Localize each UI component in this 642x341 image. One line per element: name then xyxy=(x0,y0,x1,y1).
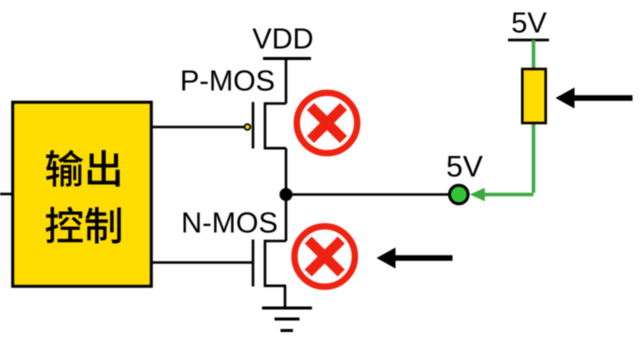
svg-text:VDD: VDD xyxy=(252,24,313,56)
wire: P-MOS drain to output node xyxy=(285,148,288,194)
power rail 5V bar xyxy=(508,39,549,42)
svg-text:5V: 5V xyxy=(446,151,483,184)
control block U1 (output control box) xyxy=(13,102,152,286)
node: output junction dot xyxy=(280,188,293,201)
wire: green vertical from 5V bar to resistor xyxy=(532,40,536,69)
label 输出 (line 1 of control box) xyxy=(46,150,120,187)
crossed-out symbol at N-MOS xyxy=(295,226,355,286)
power rail VDD bar xyxy=(263,57,311,60)
transistor Q2 N-MOS xyxy=(253,240,286,287)
resistor R1 (pull-up) xyxy=(522,69,545,123)
wire: VDD to P-MOS source xyxy=(285,59,288,104)
svg-text:N-MOS: N-MOS xyxy=(181,208,278,240)
arrow pointing at resistor xyxy=(556,88,633,109)
wire: output node to 5V clamp node xyxy=(286,193,449,196)
wire: green horizontal from resistor branch xyxy=(484,193,533,197)
wire: green vertical below resistor xyxy=(532,123,536,193)
arrow pointing at N-MOS cross xyxy=(377,248,453,269)
ground xyxy=(262,308,312,331)
label 控制 (line 2 of control box) xyxy=(46,207,121,244)
node: 5V clamp node (green dot) xyxy=(450,185,469,204)
svg-text:P-MOS: P-MOS xyxy=(180,66,275,98)
wire: control box to N-MOS gate xyxy=(151,261,254,264)
svg-text:5V: 5V xyxy=(511,8,547,40)
transistor Q1 P-MOS xyxy=(253,102,286,149)
green arrowhead into clamp node xyxy=(470,188,485,202)
crossed-out symbol at P-MOS xyxy=(297,93,357,153)
wire: input into control box left xyxy=(0,193,13,196)
gate bubble of P-MOS xyxy=(245,124,251,130)
wire: control box to P-MOS gate xyxy=(151,126,244,129)
wire: output node to N-MOS drain xyxy=(285,195,288,242)
wire: N-MOS source to ground xyxy=(284,286,287,308)
